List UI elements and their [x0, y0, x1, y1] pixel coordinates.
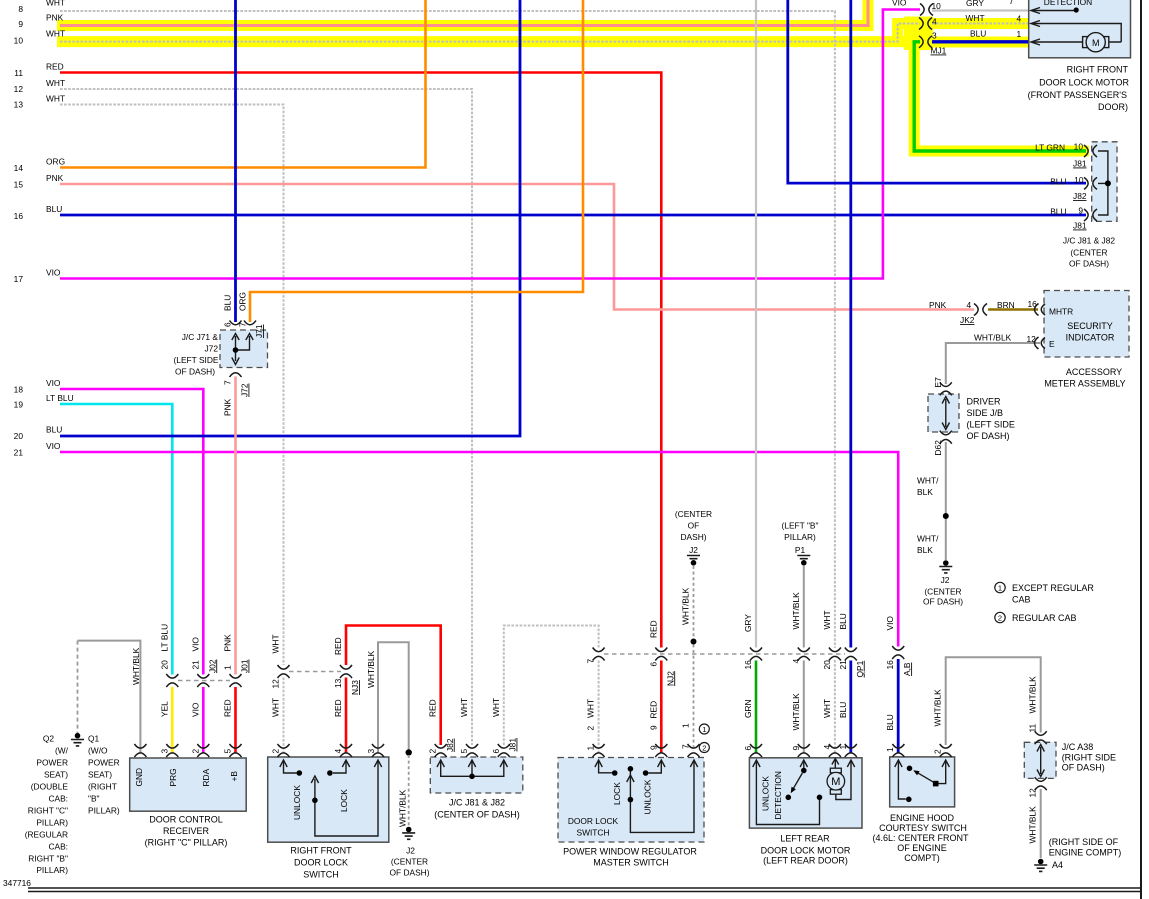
svg-text:J72: J72 [240, 383, 250, 397]
svg-text:VIO: VIO [892, 0, 907, 8]
svg-text:16: 16 [14, 211, 24, 221]
svg-text:REGULAR CAB: REGULAR CAB [1012, 613, 1077, 623]
svg-text:VIO: VIO [46, 268, 61, 278]
wire WHT/BLK security indicator E to E7 [946, 343, 1040, 384]
svg-text:DETECTION: DETECTION [773, 771, 783, 819]
svg-text:ENGINE COMPT): ENGINE COMPT) [1049, 848, 1122, 858]
svg-text:INDICATOR: INDICATOR [1066, 333, 1115, 343]
svg-text:OF DASH): OF DASH) [389, 868, 429, 878]
wire WHT/BLK dotted down to J2 ground under switch [408, 755, 410, 827]
svg-text:21: 21 [14, 448, 24, 458]
svg-text:SWITCH: SWITCH [303, 870, 339, 880]
svg-text:WHT: WHT [822, 610, 832, 629]
connector MJ1 pin3 [919, 36, 932, 48]
wire row16 BLU to J81 pin9 [60, 214, 1086, 217]
svg-text:OF: OF [688, 521, 700, 531]
wire BRN JK2 to security indicator MHTR [988, 308, 1038, 311]
svg-text:13: 13 [333, 678, 343, 688]
ground J2 center of dash (under switch) [402, 827, 415, 840]
svg-text:2: 2 [428, 749, 438, 754]
connector A,B pin16 [892, 646, 904, 659]
svg-text:1: 1 [681, 723, 691, 728]
svg-text:5: 5 [223, 749, 233, 754]
svg-text:+B: +B [229, 771, 239, 782]
svg-text:(CENTER: (CENTER [1070, 248, 1107, 258]
wire WHT/BLK D62 down to J2 ground right [945, 442, 947, 560]
connector J81 pin9 right [1084, 209, 1097, 221]
svg-text:21: 21 [190, 660, 200, 670]
J71 interior arrows [232, 334, 239, 351]
svg-text:WHT: WHT [46, 94, 65, 104]
svg-text:J02: J02 [207, 659, 217, 673]
svg-text:2: 2 [586, 726, 596, 731]
junction dot at J2 ground branch [406, 749, 412, 755]
arrow pin WHT into motor box [1031, 21, 1040, 27]
ground A4 right side engine compt [1034, 859, 1047, 872]
svg-text:4: 4 [932, 17, 937, 27]
svg-text:WHT/: WHT/ [917, 476, 939, 486]
svg-text:2: 2 [998, 614, 1002, 623]
connector A38 pin12 [1035, 777, 1047, 790]
door control receiver box [130, 758, 247, 811]
svg-text:JK2: JK2 [960, 315, 975, 325]
svg-text:LT BLU: LT BLU [159, 624, 169, 652]
svg-text:CAB: CAB [1012, 595, 1031, 605]
svg-text:WHT/BLK: WHT/BLK [1028, 676, 1038, 714]
svg-text:12: 12 [271, 679, 281, 689]
connector J02 pin21 [197, 674, 209, 687]
svg-text:UNLOCK: UNLOCK [761, 776, 771, 811]
svg-text:20: 20 [822, 660, 832, 670]
svg-text:WHT: WHT [46, 78, 65, 88]
wire highlight row10 WHT yellow [57, 36, 931, 47]
wire RED J01 connector to receiver pin5 [234, 687, 237, 753]
connector switch pin4 [340, 744, 352, 757]
svg-text:3: 3 [932, 31, 937, 41]
svg-text:347716: 347716 [3, 878, 31, 888]
security indicator box [1044, 291, 1129, 358]
connector switch pin3 [372, 744, 384, 757]
label J/C A38 [1062, 742, 1116, 773]
svg-text:10: 10 [1074, 175, 1084, 185]
svg-text:SIDE J/B: SIDE J/B [967, 408, 1004, 418]
svg-text:WHT/BLK: WHT/BLK [131, 647, 141, 685]
svg-text:(RIGHT: (RIGHT [88, 782, 117, 792]
svg-text:WHT: WHT [271, 634, 281, 653]
svg-text:ACCESSORY: ACCESSORY [1066, 367, 1122, 377]
svg-text:M: M [1092, 38, 1100, 48]
svg-text:M: M [831, 776, 840, 788]
motor U1 interior BLU line to motor [1033, 41, 1121, 43]
wire WHT J81 pin6 up over to master switch pin1 connector [504, 626, 599, 746]
connector NJ2 pin6 [655, 648, 667, 661]
svg-text:VIO: VIO [46, 441, 61, 451]
svg-text:PNK: PNK [929, 300, 947, 310]
svg-text:DOOR LOCK: DOOR LOCK [294, 858, 348, 868]
svg-text:9: 9 [791, 746, 801, 751]
svg-text:A4: A4 [1052, 860, 1063, 870]
wire WHT/BLK pin4 connector to left rear door lock motor pin9 [803, 661, 805, 754]
svg-text:4: 4 [967, 300, 972, 310]
LR motor interior: unlock detection switch [803, 761, 805, 770]
svg-text:J82: J82 [1073, 191, 1087, 201]
svg-text:18: 18 [14, 385, 24, 395]
wire BLU top edge down to J/C J71 pin6 [234, 0, 237, 322]
svg-text:VIO: VIO [885, 616, 895, 631]
label right front door lock motor [1028, 65, 1130, 113]
svg-text:SEAT): SEAT) [44, 770, 68, 780]
label left rear door lock motor [761, 834, 851, 866]
svg-text:BLU: BLU [46, 425, 62, 435]
svg-text:OF DASH): OF DASH) [923, 597, 963, 607]
wire GRY top edge down to connector pin16 [755, 0, 757, 648]
svg-text:7: 7 [223, 380, 233, 385]
wire row18 VIO down to J02 pin21 [60, 389, 203, 675]
svg-text:Q2: Q2 [43, 734, 55, 744]
wire WHT/BLK receiver pin1 to Q1 ground [78, 641, 141, 753]
svg-text:9: 9 [1078, 206, 1083, 216]
svg-text:WHT: WHT [46, 29, 65, 39]
svg-text:1: 1 [223, 665, 233, 670]
svg-text:WHT/BLK: WHT/BLK [791, 693, 801, 731]
connector J81 pin6 [498, 744, 510, 757]
connector pin12 WHT [278, 665, 290, 678]
wire WHT/BLK dashed down to Q2 ground [77, 641, 79, 733]
svg-text:DETECTION: DETECTION [1044, 0, 1092, 7]
svg-text:CAB:: CAB: [48, 842, 68, 852]
svg-text:17: 17 [14, 274, 24, 284]
master switch interior: UNLOCK contact to pin9 [648, 761, 661, 773]
svg-text:RED: RED [333, 637, 343, 655]
svg-text:WHT/BLK: WHT/BLK [933, 689, 943, 727]
svg-text:ORG: ORG [238, 292, 248, 311]
svg-text:(CENTER: (CENTER [675, 509, 712, 519]
svg-text:E7: E7 [933, 377, 943, 388]
svg-text:OF DASH): OF DASH) [175, 367, 215, 377]
svg-text:DASH): DASH) [680, 532, 706, 542]
svg-text:WHT/BLK: WHT/BLK [791, 592, 801, 630]
connector MHTR pin16 [1035, 304, 1046, 316]
svg-text:J72: J72 [204, 344, 218, 354]
svg-text:7: 7 [1009, 0, 1014, 6]
svg-text:POWER WINDOW REGULATOR: POWER WINDOW REGULATOR [563, 847, 697, 857]
svg-text:OF DASH): OF DASH) [1069, 259, 1109, 269]
svg-text:WHT: WHT [586, 699, 596, 718]
svg-text:15: 15 [14, 180, 24, 190]
svg-text:J01: J01 [240, 659, 250, 673]
connector J82 pin2 [435, 744, 447, 757]
svg-text:BLK: BLK [917, 487, 933, 497]
svg-text:Q1: Q1 [88, 734, 100, 744]
label J/C J81 & J82 bottom [434, 798, 520, 820]
svg-text:RIGHT "C": RIGHT "C" [28, 806, 68, 816]
arrow pin BLU into motor box [1031, 39, 1040, 45]
svg-text:METER ASSEMBLY: METER ASSEMBLY [1044, 379, 1125, 389]
wire WHT/BLK J2 ground to master switch pin7 [693, 566, 695, 751]
svg-text:RED: RED [648, 620, 658, 638]
connector VIO pin10 [920, 4, 933, 16]
connector pin7 master branch [593, 648, 605, 661]
connector J01 pin1 [230, 674, 242, 687]
svg-text:RIGHT FRONT: RIGHT FRONT [1067, 65, 1129, 75]
svg-text:POWER: POWER [88, 758, 120, 768]
wire highlight row9 PNK yellow [57, 0, 868, 26]
connector receiver pin2 [197, 744, 209, 757]
master switch interior pole to pin7 [630, 761, 694, 832]
connector E pin12 [1035, 337, 1046, 349]
svg-text:UNLOCK: UNLOCK [292, 785, 302, 820]
motor U1 interior detection line [1033, 10, 1076, 12]
svg-text:21: 21 [838, 660, 848, 670]
wire highlight MJ1 connector block [904, 17, 933, 51]
wire VIO J02 to receiver pin2 [202, 687, 205, 753]
svg-text:8: 8 [18, 4, 23, 14]
connector receiver pin1 [134, 744, 146, 757]
svg-text:2: 2 [190, 749, 200, 754]
J/C A38 box [1024, 742, 1056, 778]
wire BLU QP1 pin21 to left rear door lock motor pin1 [849, 661, 852, 754]
svg-text:11: 11 [1028, 723, 1038, 732]
connector pin20 LT BLU/YEL [166, 674, 178, 687]
svg-text:OF DASH): OF DASH) [967, 431, 1010, 441]
svg-text:1: 1 [586, 746, 596, 751]
svg-text:PNK: PNK [223, 634, 233, 652]
connector JK2 pin4 [974, 304, 987, 316]
wire RED J82 pin2 up over to right front door lock switch pin4 [346, 626, 441, 746]
svg-text:1: 1 [838, 745, 848, 750]
label door control receiver [145, 815, 228, 848]
svg-text:RED: RED [428, 699, 438, 717]
svg-text:ENGINE HOOD: ENGINE HOOD [890, 813, 955, 823]
wire row9 PNK to top edge [60, 0, 868, 26]
svg-text:WHT/BLK: WHT/BLK [974, 333, 1012, 343]
wire BLU top edge to J82 pin10 [788, 0, 1086, 183]
connector master pin7 [688, 744, 700, 757]
wire LT GRN from J81 pin10 up to MJ1 pin3 [914, 42, 1086, 151]
svg-text:ORG: ORG [46, 157, 65, 167]
driver side J/B interior arrow [942, 397, 949, 430]
switch S1 interior: pin4 arm to LOCK contact [333, 761, 346, 773]
svg-text:BLU: BLU [1050, 207, 1066, 217]
svg-text:3: 3 [159, 749, 169, 754]
svg-text:1: 1 [702, 725, 706, 734]
connector E7 [940, 382, 952, 395]
engine hood courtesy switch box [890, 757, 955, 807]
svg-text:DOOR LOCK: DOOR LOCK [568, 816, 619, 826]
svg-text:7: 7 [586, 659, 596, 664]
label A4 ground [1049, 837, 1122, 858]
svg-text:J2: J2 [941, 575, 950, 585]
hood switch interior pin2 to movable contact [938, 761, 946, 784]
wire ORG top edge down to J/C J71 pin7 [250, 0, 583, 322]
svg-text:WHT: WHT [459, 698, 469, 717]
switch S1 interior pole to pin3 [315, 761, 378, 836]
svg-text:DOOR): DOOR) [1098, 102, 1128, 112]
svg-text:PILLAR): PILLAR) [88, 806, 120, 816]
svg-text:1: 1 [1017, 29, 1022, 39]
wire row19 LT BLU down to pin20 connector [60, 404, 172, 675]
wire row8 WHT below QP1 connector to motor pin 4 [834, 660, 836, 753]
legend except regular cab [995, 582, 1095, 623]
svg-text:20: 20 [14, 431, 24, 441]
wire row11 RED down to NJ2 [60, 73, 661, 648]
ground J2 right (driver side J/B) [939, 560, 952, 573]
svg-text:LOCK: LOCK [612, 782, 622, 805]
svg-text:7: 7 [681, 744, 691, 749]
wire BLU top edge down to QP1 pin21 [849, 0, 852, 648]
svg-text:PILLAR): PILLAR) [784, 532, 816, 542]
svg-text:J/C J81 & J82: J/C J81 & J82 [1063, 236, 1115, 246]
svg-text:MJ1: MJ1 [931, 46, 947, 56]
svg-text:NJ2: NJ2 [665, 671, 675, 686]
connector J81 pin10 right [1084, 145, 1097, 157]
master switch interior: pin1 arm to LOCK contact [599, 761, 612, 773]
svg-text:SECURITY: SECURITY [1067, 321, 1113, 331]
connector J71 pin7 [244, 321, 256, 325]
svg-text:PNK: PNK [46, 13, 64, 23]
svg-text:J/C A38: J/C A38 [1062, 742, 1094, 752]
hood switch interior pin1 to contact [898, 761, 905, 799]
svg-text:12: 12 [14, 84, 24, 94]
svg-text:WHT/BLK: WHT/BLK [398, 789, 408, 827]
svg-text:16: 16 [743, 660, 753, 670]
wire row8 WHT: left rail to x=834.9 then down to QP1 pin20 and LR door lock motor pin4 [60, 11, 835, 648]
svg-text:WHT: WHT [46, 0, 65, 8]
svg-text:SEAT): SEAT) [88, 770, 112, 780]
svg-text:10: 10 [932, 1, 942, 11]
junction dot on D62 ground wire [943, 513, 949, 519]
svg-text:J/C J71 &: J/C J71 & [182, 332, 219, 342]
frame right border [1140, 0, 1142, 899]
svg-text:PNK: PNK [46, 173, 64, 183]
svg-text:(REGULAR: (REGULAR [25, 830, 68, 840]
arrow pin GRY into motor box [1031, 8, 1040, 14]
connector LR motor pin4 [829, 744, 841, 757]
svg-text:VIO: VIO [190, 637, 200, 652]
circled note 1 and 2 at master pin7 [699, 724, 709, 734]
svg-text:QP1: QP1 [855, 660, 865, 677]
wire WHT/BLK engine hood switch pin2 to J/C A38 pin11 [946, 657, 1041, 745]
svg-text:RED: RED [333, 699, 343, 717]
wire row20 BLU up to top edge [60, 0, 520, 436]
label power window regulator master switch [563, 847, 697, 868]
connector hood switch pin2 [940, 744, 952, 757]
svg-text:PNK: PNK [223, 398, 233, 416]
svg-text:20: 20 [159, 660, 169, 670]
svg-text:16: 16 [885, 660, 895, 670]
svg-text:LOCK: LOCK [339, 789, 349, 812]
wire RED NJ3 connector to switch pin4 [345, 678, 348, 754]
wire WHT/BLK P1 ground to connector pin4 [803, 566, 805, 648]
wire RED NJ2 to master switch pin9 [660, 661, 663, 754]
ground P1 left B pillar [797, 556, 810, 566]
wire row17 VIO up to door lock motor detection pin10 [60, 10, 920, 279]
svg-text:LT GRN: LT GRN [1035, 143, 1065, 153]
svg-text:RDA: RDA [201, 768, 211, 786]
svg-text:5: 5 [459, 749, 469, 754]
labels driver side J/B [967, 397, 1015, 442]
junction dot on master switch pin7 wire [691, 639, 697, 645]
svg-text:DOOR LOCK MOTOR: DOOR LOCK MOTOR [761, 846, 851, 856]
frame bottom border double line [28, 888, 1141, 892]
wire WHT/BLK right front door lock switch pin3 to J2 ground [378, 642, 409, 753]
svg-text:2: 2 [933, 749, 943, 754]
connector master pin9 [655, 744, 667, 757]
svg-text:BLU: BLU [970, 29, 986, 39]
svg-text:PILLAR): PILLAR) [36, 865, 68, 875]
svg-text:4: 4 [1017, 14, 1022, 24]
J/C J81 and J82 bottom box [430, 757, 523, 793]
ground Q2/Q1 right pillar [71, 733, 84, 746]
svg-text:DRIVER: DRIVER [967, 397, 1002, 407]
svg-text:9: 9 [648, 725, 658, 730]
svg-text:VIO: VIO [190, 702, 200, 717]
connector J71 pin6 [230, 321, 242, 325]
label right front door lock switch [290, 846, 352, 880]
svg-text:WHT/BLK: WHT/BLK [681, 587, 691, 625]
connector J82 pin10 right [1084, 177, 1097, 189]
svg-text:UNLOCK: UNLOCK [643, 779, 653, 814]
wire WHT/BLK J/C A38 pin12 down to A4 ground [1040, 789, 1042, 858]
svg-text:WHT/: WHT/ [917, 534, 939, 544]
wire GRY pin10 to right front door lock motor [932, 9, 1029, 11]
svg-text:WHT: WHT [966, 13, 985, 23]
wire WHT MJ1 pin4 to right front door lock motor [932, 23, 1029, 25]
svg-text:NJ3: NJ3 [350, 680, 360, 695]
svg-text:DOOR CONTROL: DOOR CONTROL [149, 815, 223, 825]
svg-text:RECEIVER: RECEIVER [163, 826, 210, 836]
svg-text:(RIGHT SIDE OF: (RIGHT SIDE OF [1049, 837, 1119, 847]
connector LR motor pin1 [845, 744, 857, 757]
svg-text:6: 6 [223, 322, 233, 327]
connector LR motor pin9 [798, 744, 810, 757]
connector LR motor pin6 [750, 744, 762, 757]
svg-text:POWER: POWER [36, 758, 68, 768]
svg-text:WHT/BLK: WHT/BLK [366, 650, 376, 688]
LR motor interior: pin6 path to contact [756, 761, 819, 825]
connector D62 [940, 431, 952, 444]
svg-text:PILLAR): PILLAR) [36, 818, 68, 828]
svg-text:EXCEPT REGULAR: EXCEPT REGULAR [1012, 583, 1094, 593]
svg-text:GND: GND [134, 768, 144, 787]
svg-text:(LEFT "B": (LEFT "B" [782, 521, 819, 531]
svg-text:9: 9 [18, 19, 23, 29]
left rear door lock motor box [749, 758, 862, 828]
driver side J/B box [928, 394, 959, 432]
svg-text:(CENTER: (CENTER [924, 587, 961, 597]
J/C J71 and J72 box [220, 330, 268, 368]
svg-text:10: 10 [14, 36, 24, 46]
svg-text:A,B: A,B [902, 662, 912, 676]
svg-text:4: 4 [822, 745, 832, 750]
svg-text:BRN: BRN [997, 300, 1015, 310]
svg-text:RIGHT "B": RIGHT "B" [28, 854, 68, 864]
svg-text:J/C J81 & J82: J/C J81 & J82 [449, 798, 505, 808]
wire row13 WHT down to pin12 connector [60, 105, 284, 666]
switch S1 interior: pin2 arm to UNLOCK contact [284, 761, 297, 773]
connector QP1 pin21 [845, 648, 857, 661]
svg-text:BLU: BLU [885, 714, 895, 730]
J/C A38 interior arrow [1037, 745, 1044, 777]
svg-text:(RIGHT "C" PILLAR): (RIGHT "C" PILLAR) [145, 838, 228, 848]
svg-text:COMPT): COMPT) [904, 853, 940, 863]
svg-text:1: 1 [998, 584, 1002, 593]
J/C J81 and J82 right box [1092, 142, 1117, 222]
svg-text:GRN: GRN [743, 699, 753, 718]
svg-text:WHT: WHT [491, 698, 501, 717]
connector MJ1 pin4 [919, 18, 932, 30]
svg-text:LT BLU: LT BLU [46, 393, 74, 403]
